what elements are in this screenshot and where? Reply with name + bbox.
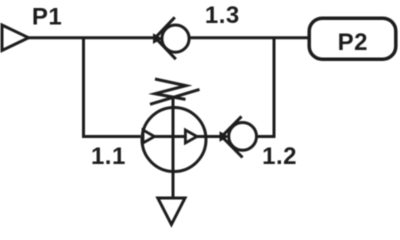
wire: regulator 1.1 to check valve 1.2 seat: [206, 135, 223, 138]
P2 port box: [309, 18, 396, 59]
svg-text:P2: P2: [338, 29, 368, 56]
regulator 1.1 right open arrow: [185, 130, 197, 143]
adjustment arrow through spring: [150, 89, 200, 104]
check valve 1.3 seat lines: [155, 17, 176, 59]
regulator 1.1 vertical pilot line to spring and exhaust: [172, 97, 175, 198]
adjustment spring zigzag: [155, 79, 186, 99]
regulator 1.1 left open arrow: [143, 130, 155, 143]
pressure regulator 1.1 body circle: [142, 108, 206, 172]
check valve 1.3 flow arrow (filled): [153, 33, 163, 44]
P1 source triangle: [2, 25, 29, 51]
exhaust vent triangle: [158, 198, 185, 225]
svg-text:1.1: 1.1: [91, 143, 126, 170]
regulator 1.1 flow line chord: [143, 135, 207, 138]
wire: P1 tip to check valve 1.3 seat: [29, 36, 157, 39]
wire: left branch down from top line: [84, 38, 141, 137]
svg-text:P1: P1: [32, 4, 62, 31]
check valve 1.2 flow arrow (filled): [220, 131, 230, 142]
wire: check valve 1.3 to P2 box: [189, 36, 309, 39]
svg-text:1.2: 1.2: [262, 143, 297, 170]
svg-text:1.3: 1.3: [205, 2, 240, 29]
wire: check valve 1.2 up right branch to top line: [256, 38, 274, 137]
check valve 1.3 ball circle: [162, 25, 189, 52]
check valve 1.2 ball circle: [229, 122, 257, 150]
check valve 1.2 seat lines: [222, 116, 243, 157]
